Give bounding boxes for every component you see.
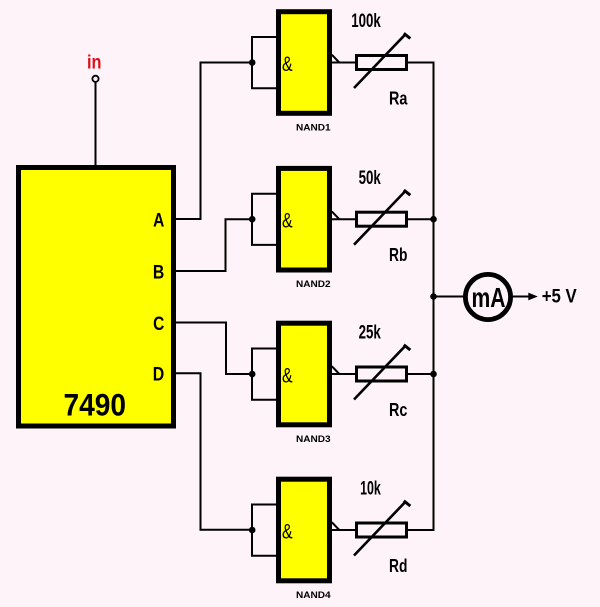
inverter slash on NAND3 output (332, 366, 340, 374)
junction dot bus at Rc row (430, 371, 437, 378)
svg-text:C: C (153, 314, 164, 335)
wire: in terminal down to 7490 top (95, 82, 97, 167)
wire: NAND1 output to resistor Ra (332, 62, 356, 64)
resistor Rc body (357, 367, 407, 381)
potentiometer arrow crossbar of Rd (404, 501, 411, 506)
svg-text:D: D (153, 365, 165, 386)
junction dot bus at Rb row (430, 216, 437, 223)
inverter slash on NAND4 output (332, 522, 340, 530)
wire: 7490 output D to NAND4 input (176, 373, 252, 530)
svg-text:NAND2: NAND2 (296, 279, 331, 289)
junction dot bus at meter row (430, 293, 437, 300)
svg-text:NAND1: NAND1 (296, 122, 331, 132)
wire: 7490 output A to NAND1 input (176, 63, 252, 220)
wire: summing bus vertical (433, 63, 435, 531)
svg-text:25k: 25k (359, 323, 382, 344)
junction dot at NAND2 input (249, 216, 256, 223)
wire: milliammeter to +5V (511, 296, 531, 298)
potentiometer arrow crossbar of Rb (404, 190, 411, 195)
arrowhead to +5V (528, 293, 538, 301)
svg-text:50k: 50k (359, 168, 382, 189)
resistor Ra body (357, 56, 407, 70)
svg-text:100k: 100k (351, 11, 381, 32)
wire: NAND1 input splitter (252, 37, 278, 88)
svg-text:Rc: Rc (389, 400, 407, 420)
svg-text:&: & (282, 521, 293, 544)
potentiometer arrow of Rc (354, 345, 406, 399)
svg-text:NAND4: NAND4 (296, 590, 331, 600)
svg-text:B: B (153, 262, 164, 283)
svg-text:Rb: Rb (389, 245, 407, 265)
svg-text:7490: 7490 (64, 386, 127, 422)
potentiometer arrow crossbar of Ra (404, 33, 411, 38)
potentiometer arrow of Ra (354, 34, 406, 88)
inverter slash on NAND2 output (332, 211, 340, 219)
potentiometer arrow of Rd (354, 501, 406, 555)
junction dot at NAND4 input (249, 527, 256, 534)
wire: NAND3 input splitter (252, 349, 278, 400)
svg-text:10k: 10k (360, 479, 381, 500)
wire: NAND4 output to resistor Rd (332, 529, 356, 531)
svg-text:mA: mA (472, 282, 506, 313)
junction dot at NAND1 input (249, 59, 256, 66)
input terminal circle (92, 76, 98, 82)
svg-text:&: & (282, 365, 293, 388)
wire: bus to milliammeter (434, 296, 466, 298)
NAND gate NAND4 body (279, 479, 330, 581)
wire: resistor Rb to summing bus (406, 218, 435, 220)
wire: NAND4 input splitter (252, 505, 278, 556)
wire: NAND2 input splitter (252, 194, 278, 245)
NAND gate NAND1 body (279, 12, 330, 114)
IC U1 7490 decade counter body (19, 168, 174, 427)
wire: 7490 output B to NAND2 input (176, 219, 252, 271)
junction dot at NAND3 input (249, 371, 256, 378)
svg-text:A: A (153, 210, 164, 231)
NAND gate NAND2 body (279, 168, 330, 270)
svg-text:Rd: Rd (389, 556, 407, 576)
wire: resistor Rd to summing bus (406, 529, 435, 531)
potentiometer arrow crossbar of Rc (404, 345, 411, 350)
resistor Rd body (357, 523, 407, 537)
svg-text:in: in (87, 52, 102, 74)
svg-text:Ra: Ra (389, 89, 408, 109)
resistor Rb body (357, 212, 407, 226)
wire: resistor Ra to summing bus (406, 62, 435, 64)
svg-text:+5 V: +5 V (542, 287, 577, 308)
NAND gate NAND3 body (279, 323, 330, 425)
milliammeter M1 circle (465, 274, 510, 319)
potentiometer arrow of Rb (354, 190, 406, 244)
inverter slash on NAND1 output (332, 55, 340, 63)
wire: NAND2 output to resistor Rb (332, 218, 356, 220)
wire: 7490 output C to NAND3 input (176, 323, 252, 375)
svg-text:&: & (282, 53, 293, 76)
wire: NAND3 output to resistor Rc (332, 373, 356, 375)
svg-text:NAND3: NAND3 (296, 434, 331, 444)
wire: resistor Rc to summing bus (406, 373, 435, 375)
svg-text:&: & (282, 210, 293, 233)
